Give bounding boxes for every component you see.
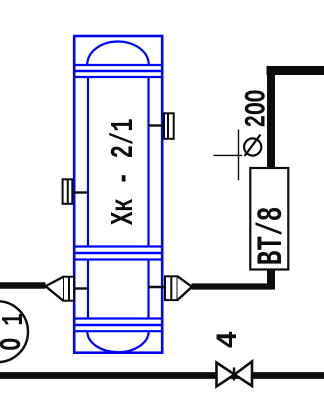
- nozzle N4 right lower: stub: [148, 286, 165, 288]
- svg-text:4: 4: [211, 331, 245, 349]
- nozzle N4 right lower: flange: [165, 276, 178, 300]
- nozzle N1 right upper: stub: [149, 124, 165, 126]
- wire top pipe (elbow to top right): [267, 66, 324, 169]
- vessel shell walls lower section: [88, 260, 149, 319]
- dimension cross: [213, 130, 242, 181]
- valve 4: left triangle: [217, 363, 235, 387]
- nozzle N4 reducer cone: [178, 276, 193, 300]
- wire bottom pipe: [0, 372, 324, 379]
- svg-text:1: 1: [0, 313, 31, 326]
- vessel shell walls upper section: [88, 77, 149, 247]
- valve 4: stem tick: [233, 368, 235, 381]
- vessel top flange lines: [75, 65, 163, 77]
- wire left pipe into vessel: [0, 282, 46, 289]
- svg-text:ВТ/8: ВТ/8: [253, 207, 292, 266]
- diameter symbol: [244, 135, 261, 157]
- wire pipe below BT/8 box to vessel right nozzle: [192, 270, 275, 290]
- nozzle N2 left mid: stub: [73, 191, 88, 193]
- line number circle tag: [0, 301, 28, 362]
- nozzle N3 reducer cone: [46, 277, 64, 301]
- vessel top head dome: [87, 42, 148, 65]
- label box BT/8: [250, 168, 288, 270]
- vessel bottom head dome: [87, 331, 148, 352]
- svg-text:О: О: [0, 338, 30, 351]
- svg-text:Хк - 2/1: Хк - 2/1: [107, 118, 143, 225]
- vessel block frame: [74, 36, 162, 353]
- nozzle N3 left lower: flange: [63, 277, 74, 301]
- nozzle N2 left mid: flange: [63, 179, 73, 204]
- nozzle N1 right upper: flange: [164, 113, 174, 139]
- vessel bottom flange lines: [75, 319, 163, 332]
- vessel mid flange lines: [75, 247, 163, 260]
- svg-text:2ОО: 2ОО: [240, 90, 273, 128]
- nozzle N3 left lower: stub: [74, 287, 89, 289]
- valve 4: right triangle: [235, 362, 253, 387]
